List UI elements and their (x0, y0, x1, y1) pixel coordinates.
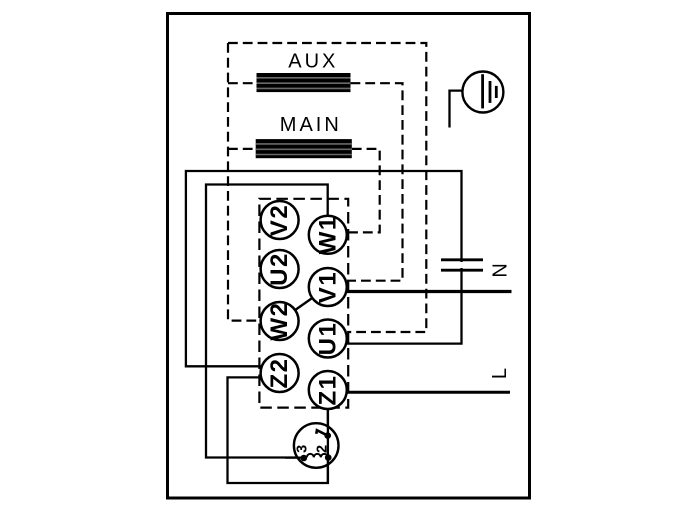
svg-text:V1: V1 (314, 271, 341, 303)
svg-text:N: N (490, 263, 512, 277)
svg-text:W1: W1 (314, 215, 341, 254)
svg-text:U2: U2 (266, 252, 293, 286)
svg-text:AUX: AUX (288, 51, 338, 73)
svg-text:3: 3 (294, 445, 310, 453)
svg-text:V2: V2 (266, 204, 293, 236)
svg-text:W2: W2 (266, 302, 293, 341)
svg-text:MAIN: MAIN (280, 114, 342, 136)
svg-text:U1: U1 (314, 322, 341, 356)
svg-text:Z1: Z1 (314, 374, 341, 405)
svg-text:2: 2 (314, 445, 330, 453)
svg-text:L: L (489, 368, 511, 379)
svg-text:Z2: Z2 (266, 357, 293, 388)
